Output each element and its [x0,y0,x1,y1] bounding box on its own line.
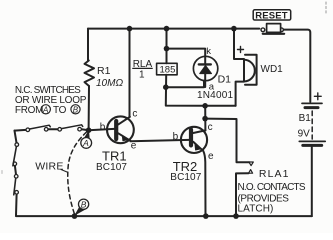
label k [206,46,211,57]
svg-text:N.O. CONTACTS: N.O. CONTACTS [238,182,306,193]
svg-text:WD1: WD1 [261,64,284,75]
label c TR1 [132,109,137,120]
wire diode bottom branch [166,81,204,88]
label TR1 [102,149,127,164]
svg-text:TO: TO [53,105,67,116]
label FROM A TO B [15,105,80,116]
wire TR1 emitter to TR2 base [131,140,189,141]
junction bottom rail RLA1 [233,213,239,219]
wire diode top branch [167,49,206,57]
svg-text:185: 185 [160,65,176,76]
svg-text:BC107: BC107 [96,162,127,173]
junction top rail relay [164,26,170,32]
svg-text:c: c [132,109,137,120]
svg-text:c: c [208,122,213,133]
label RLA/1 [133,59,153,81]
scan artifact right edge [325,2,327,13]
svg-text:D1: D1 [218,74,232,86]
wire right rail from pushbutton to battery [283,30,311,102]
node A tag [81,131,92,148]
junction diode bottom [163,84,169,90]
label 9V [298,129,311,140]
junction top rail WD1 [231,26,237,32]
svg-text:b: b [173,131,179,142]
N.C. switch loop left wire [15,131,17,216]
diode D1 1N4001 [193,56,217,87]
wire battery bottom lead [311,147,313,216]
junction TR1 base node [86,127,92,133]
label OR WIRE LOOP [15,95,87,106]
wire TR2 collector link [204,106,206,131]
junction bottom rail TR2 emitter [203,213,209,219]
svg-text:R1: R1 [97,65,111,77]
battery B1 [299,103,325,145]
label D1 [218,74,232,86]
svg-text:1: 1 [139,70,145,81]
label WD1 [261,64,284,75]
transistor TR2 BC107 [181,127,207,216]
resistor R1 [85,29,95,131]
svg-text:1N4001: 1N4001 [197,90,233,101]
label c TR2 [208,122,213,133]
junction bottom rail B [72,213,78,219]
svg-text:BC107: BC107 [170,172,201,183]
label TR2 [173,159,198,174]
switch S4 [14,175,19,195]
relay contact RLA1 [205,119,253,217]
sounder WD1 [234,29,257,106]
label N.O. CONTACTS [238,182,306,193]
label (PROVIDES [238,194,290,205]
wire bottom 0V rail [16,215,312,217]
label N.C. SWITCHES [15,85,81,96]
label a [209,82,215,93]
switch S2 [58,125,83,131]
label b TR2 [173,131,179,142]
label B1 [299,113,312,124]
wire relay top lead [166,29,168,64]
svg-text:A: A [82,138,89,148]
relay coil RLA box 185 [157,63,178,75]
junction diode top [164,46,170,52]
node B tag [75,199,89,215]
N.C. switch loop top wire [15,129,89,130]
junction top rail TR1 [127,26,133,32]
transistor TR1 BC107 [89,116,134,143]
label BC107 TR1 [96,162,127,173]
wire dashed A-B alternative loop [68,132,87,214]
wire node Y horizontal to WD1 [205,105,236,107]
label 1N4001 [197,90,233,101]
wire relay bottom lead [166,75,205,106]
svg-text:B: B [81,200,87,210]
wire top supply rail [88,28,259,30]
svg-text:LATCH): LATCH) [238,203,274,214]
switch S1 [26,125,50,131]
pushbutton RESET switch [261,24,284,34]
svg-text:B: B [73,105,79,114]
label RLA1 [259,168,290,180]
label + for battery [314,93,321,100]
scan artifact left edge [1,171,3,174]
svg-text:10MΩ: 10MΩ [96,78,123,89]
label LATCH) [238,203,274,214]
label BC107 TR2 [170,172,201,183]
svg-text:WIRE: WIRE [35,161,63,173]
label b TR1 [100,122,106,133]
svg-text:B1: B1 [299,113,312,124]
svg-text:RLA1: RLA1 [259,168,290,180]
svg-text:A: A [42,105,48,114]
label e TR2 [208,151,214,162]
svg-text:FROM: FROM [15,105,43,116]
junction node Y [202,103,208,109]
svg-text:9V: 9V [298,129,311,140]
label WIRE pointer [61,170,67,173]
wire TR1 collector [129,29,131,117]
label e TR1 [131,141,137,152]
label R1 value [96,65,123,89]
svg-text:RESET: RESET [255,11,287,22]
svg-text:k: k [206,46,211,57]
switch S3 [13,143,19,166]
svg-text:b: b [100,122,106,133]
label + for WD1 [238,47,244,53]
svg-text:e: e [208,151,214,162]
junction RLA1 tap [202,116,208,122]
label WIRE [35,161,63,173]
label RESET box [253,10,291,22]
